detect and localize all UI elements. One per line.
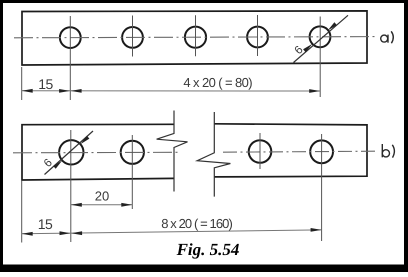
arrow right (20 dim) (121, 203, 132, 207)
strip b left piece outline (22, 124, 174, 180)
leader arrowhead upper (hole A5) (328, 22, 337, 30)
centerline strip b right (223, 151, 378, 152)
hole B4 (310, 140, 333, 163)
vertical centerline / extension line hole A5 (319, 17, 321, 98)
page border frame (0, 0, 408, 3)
centerline strip a (14, 37, 376, 38)
centerline strip b left (13, 151, 180, 154)
svg-text:6: 6 (293, 44, 306, 57)
svg-text:20: 20 (95, 188, 109, 203)
leader line diameter 6 on hole A5 (294, 15, 349, 62)
hole A2 (122, 27, 143, 48)
svg-text:8 x 20 ( = 160): 8 x 20 ( = 160) (161, 216, 232, 231)
break line right (197, 112, 230, 197)
dimension line strip a (22, 90, 321, 92)
strip a outline (22, 11, 367, 65)
arrow right (15 dim a) (59, 89, 70, 93)
vertical centerline hole A2 (132, 16, 134, 57)
hole A3 (185, 27, 206, 48)
label a) (381, 31, 394, 43)
svg-text:15: 15 (38, 76, 53, 92)
arrow left (15 dim b) (22, 232, 33, 236)
svg-text:4 x 20 ( = 80): 4 x 20 ( = 80) (183, 75, 252, 90)
hole A1 (60, 27, 81, 48)
vertical centerline / extension line hole A1 (69, 16, 71, 100)
arrow left (15 dim a) (22, 89, 33, 93)
vertical centerline hole B3 (259, 133, 261, 169)
arrow left (8x20 dim) (71, 231, 82, 235)
hole B1 (59, 140, 83, 164)
dimension line bottom (15 / 8x20) (22, 230, 322, 234)
hole B3 (249, 140, 272, 163)
extension line left edge strip b (21, 181, 23, 243)
arrow left (20 dim) (71, 203, 82, 207)
svg-text:6: 6 (42, 157, 55, 170)
hole A5 (310, 26, 331, 47)
strip b right piece outline (214, 124, 367, 177)
vertical centerline / extension line hole B2 (131, 135, 133, 209)
arrow right (8x20 dim) (311, 228, 322, 232)
hole A4 (247, 27, 268, 48)
svg-text:15: 15 (38, 216, 53, 232)
dimension line 20 (strip b) (71, 204, 133, 206)
vertical centerline hole A4 (257, 15, 259, 56)
vertical centerline hole A3 (195, 15, 197, 56)
arrow right (4x20 dim) (309, 89, 320, 93)
extension line left edge strip a (21, 67, 23, 100)
svg-text:Fig. 5.54: Fig. 5.54 (176, 240, 240, 259)
leader line diameter 6 on hole B1 (45, 131, 94, 175)
label b) (382, 144, 394, 158)
arrow right (15 dim b) (60, 231, 71, 235)
arrow left (4x20 dim) (71, 89, 82, 93)
hole B2 (121, 141, 144, 164)
leader arrowhead upper (hole B1) (80, 136, 89, 144)
break line left (157, 111, 188, 192)
leader arrowhead lower (hole A5) (303, 44, 312, 52)
leader arrowhead lower (hole B1) (53, 160, 62, 168)
vertical centerline / extension line hole B1 (70, 130, 72, 242)
vertical centerline / extension line hole B4 (321, 134, 323, 241)
